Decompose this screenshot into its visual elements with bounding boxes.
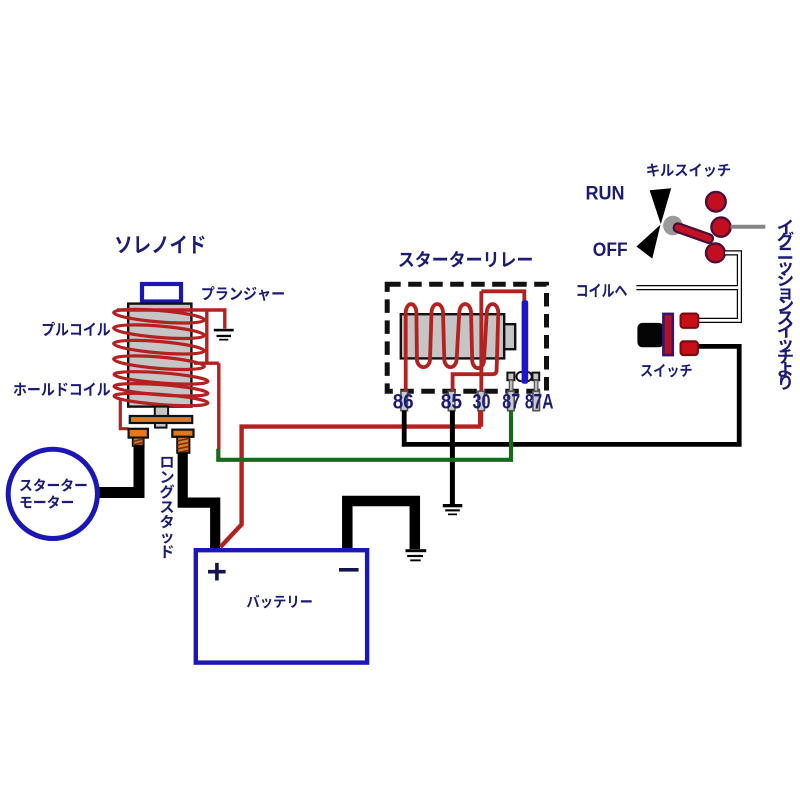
svg-text:OFF: OFF (593, 240, 628, 261)
relay coil (red winding, 86 to 85) (406, 304, 499, 392)
label: battery (batteri-) (247, 595, 312, 609)
terminal M screw hatches (133, 439, 143, 445)
solenoid coil ring 1 (pull coil) (113, 307, 205, 326)
wire: red top link 30 to contact bar (481, 291, 524, 301)
ground (relay 85) bar3 (448, 514, 457, 516)
kill switch pivot (gray circle) (663, 216, 683, 236)
wire: pull-coil tap (red, down right side) (194, 310, 219, 450)
pin stub 87 (508, 391, 515, 411)
kill switch contact RUN (top red circle) (706, 192, 726, 212)
label: hold coil (ho-rudokoiru) (14, 382, 111, 396)
switch terminal lower (red) (681, 341, 698, 355)
wire: 85 black down to ground (450, 411, 455, 504)
wire: hollow line branch to coil (outer) (636, 285, 739, 290)
wire: hold-coil bottom elbow to M terminal (120, 401, 128, 429)
terminal B screw hatches (177, 438, 189, 452)
wire: 30 red pin drop (478, 411, 482, 427)
solenoid coil ring 6 (114, 381, 209, 398)
wire: hollow line, kill OFF contact down to switch upper terminal (outer) (698, 253, 739, 321)
relay contact square 87A (532, 373, 539, 381)
label: switch (suicchi) (641, 364, 692, 378)
wire: thick cable, terminal B (long stud) to battery + (183, 453, 216, 551)
terminal M screw (133, 438, 144, 446)
wire: solenoid coil top to ground (117, 310, 225, 329)
wire: hollow line inner white (636, 253, 739, 321)
relay contact stadium (between 87/87A) (517, 372, 532, 381)
solenoid coil ring 7 (114, 391, 209, 408)
label: starter motor line1 (suta-ta-) (20, 478, 87, 491)
solenoid coil ring 2 (113, 322, 205, 341)
pin stub 30 (478, 391, 485, 411)
wire: battery minus to ground (black U) (347, 501, 415, 550)
solenoid coil ring 3 (113, 338, 205, 357)
pin stem 87 (509, 380, 513, 394)
wire: 86 black to switch lower terminal (404, 346, 739, 444)
label: to coil (koiruhe) (578, 283, 628, 297)
switch body (black) (637, 323, 663, 347)
ground (relay 85) bar2 (445, 509, 460, 511)
label: solenoid (soreno-ido) (116, 235, 205, 253)
switch terminal upper (red) (681, 314, 699, 328)
label: kill switch (kirusuicchi) (647, 163, 730, 177)
kill switch contact OFF (bottom red circle) (706, 244, 725, 263)
solenoid body (128, 304, 191, 407)
wire: gray from common contact toward ignition label (731, 225, 766, 229)
battery box (blue) (196, 550, 367, 662)
solenoid coil ring 4 (113, 353, 205, 372)
svg-text:86: 86 (393, 390, 414, 414)
starter motor (blue circle) (8, 449, 97, 538)
label: from ignition switch (vertical) (777, 220, 793, 390)
label: long stud (rongusutaddo, vertical) (160, 457, 174, 558)
svg-text:85: 85 (441, 390, 462, 414)
relay body (401, 314, 504, 358)
kill switch upper triangle (RUN side) (650, 188, 672, 224)
label: starter motor line2 (mo-ta-) (21, 495, 74, 508)
plunger (blue rect on top of solenoid) (142, 284, 181, 302)
ground (battery) bar1 (406, 549, 427, 552)
solenoid coil ring 5 (hold coil) (114, 369, 209, 386)
pin stub 86 (401, 391, 408, 411)
ground (solenoid) bar3 (219, 339, 228, 341)
ground (battery) bar2 (407, 555, 423, 557)
ground (solenoid) bar1 (214, 329, 234, 332)
kill switch contact common (middle red circle) (711, 218, 730, 237)
battery plus symbol (208, 563, 226, 581)
label: starter relay (suta-ta-rire-) (399, 251, 532, 268)
battery minus symbol (339, 568, 359, 572)
wire: relay 30 feed (red vertical through body) (479, 291, 483, 426)
ground (solenoid) bar2 (217, 335, 232, 337)
solenoid mounting bar (orange) (130, 416, 192, 423)
pin stub 85 (448, 391, 455, 411)
svg-text:RUN: RUN (586, 183, 625, 204)
svg-text:30: 30 (473, 390, 491, 414)
solenoid lower stub 2 (155, 423, 167, 428)
kill switch lever (red, pointing to lower contact) (673, 222, 715, 244)
kill switch lower triangle (OFF side) (637, 225, 661, 259)
pin stem 87A (534, 380, 538, 394)
solenoid lower stub 1 (155, 407, 168, 416)
terminal B cap (orange) (172, 430, 193, 437)
label: plunger (puranja-) (202, 286, 284, 301)
wire: red from relay 30 to battery + (vertical & diagonal) (221, 427, 482, 547)
switch bar (purple/red) (663, 314, 672, 355)
ground (battery) bar3 (410, 559, 421, 561)
relay contact square 87 (507, 373, 514, 381)
svg-text:87A: 87A (525, 390, 554, 414)
relay contact bar (blue) (522, 300, 529, 384)
ground (relay 85) bar1 (443, 504, 463, 507)
relay dashed box (387, 284, 546, 391)
terminal M cap (orange) (129, 429, 148, 438)
terminal B long-stud screw (177, 437, 189, 453)
relay body tab (504, 324, 515, 349)
label: pull coil (purukoiru) (43, 322, 111, 336)
pin stub 87A (533, 391, 540, 411)
svg-text:87: 87 (502, 390, 520, 414)
wire: thick cable, terminal M to starter motor (97, 446, 139, 493)
wire: 87 green to solenoid pull-coil junction (218, 411, 511, 460)
